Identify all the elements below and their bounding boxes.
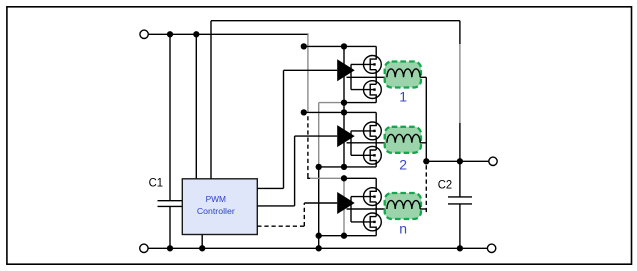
wire: phase 2 top gate lead [351,130,375,132]
node: C1 ground junction [167,245,173,251]
svg-text:2: 2 [399,157,407,173]
svg-text:C1: C1 [149,175,164,189]
wire: phase 2 source branch [319,166,377,168]
node: PWM vin junction [193,31,199,37]
wire: output line to terminal [426,160,489,162]
svg-text:1: 1 [399,89,407,105]
node: phase 2 source on middle bus [341,164,347,170]
wire: middle bus segment A [343,46,345,166]
wire: phase 2 bottom gate lead [351,154,375,156]
wire: PWM vin feed [195,34,197,179]
input terminal top (Vin+) [140,30,148,38]
inductor L1 highlight box [385,62,421,88]
node: phase 2 drain on middle bus [341,109,347,115]
wire: ground bus vertical upper (gray) [318,103,320,167]
wire: phase 1 source branch (gray + black) [319,102,344,104]
wire: phase 2 drain branch [304,111,376,113]
wire: middle bus segment B (gray) [343,178,345,235]
node: vin bus phase1 tap [301,43,307,49]
wire: top input rail [148,33,308,35]
inductor Ln highlight box [385,193,421,219]
wire: phase n switch node between FETs [375,202,377,217]
wire: feedback right vertical down to output node [459,21,461,44]
node: PWM ground junction [199,245,205,251]
output terminal top (Vout+) [489,157,497,165]
wire: bottom ground rail [148,247,487,249]
wire: feedback from output to PWM (left vertical) [210,21,212,179]
input terminal bottom (Vin-) [140,244,148,252]
wire: phase 1 switch node between FETs [375,70,377,85]
inductor L2 coil [387,134,420,142]
wire: phase 2 switch node to inductor [347,142,387,144]
capacitor C2 [448,161,472,248]
wire: phase n drain branch (gray + black) [310,177,344,179]
node: C1 top rail junction [167,31,173,37]
wire: vin bus dashed continuation [307,116,309,175]
driver U2 (phase 2) [337,125,355,147]
output terminal bottom (Vout-) [487,244,495,252]
wire: phase n source branch [319,235,377,237]
wire: phase n top gate lead [351,196,375,198]
inductor L1 coil [387,69,420,77]
node: phase n source on ground bus [316,233,322,239]
transistor Q3 high-side (phase 2) [364,112,382,139]
wire: phase n bottom gate lead [351,221,375,223]
wire: vin bus vertical (gray solid) [307,34,309,112]
transistor Q5 high-side (phase n) [364,178,382,205]
node: phase 2 source on ground bus [316,164,322,170]
wire: phase 1 top gate lead [351,63,375,65]
wire: phase outputs vertical [425,77,427,161]
capacitor C1 [158,34,183,248]
svg-text:n: n [399,221,407,237]
node: phase 1 drain on middle bus [341,43,347,49]
wire: inductor L1 output stub [420,76,426,78]
wire: phase n output dashed vertical [425,165,427,214]
wire: phase 1 bottom gate lead [351,89,375,91]
wire: phase n gate riser [350,197,352,222]
inductor Ln coil [387,201,420,209]
wire: phase 1 switch node to inductor [347,76,387,78]
svg-text:PWM: PWM [206,194,226,204]
wire: inductor Ln output stub [420,208,426,210]
transistor Q1 high-side (phase 1) [364,46,382,73]
svg-text:C2: C2 [438,178,453,192]
wire: PWM to driver 2 [257,136,337,206]
wire: phase 2 gate riser [350,131,352,155]
node: phase output join [423,158,429,164]
inductor L2 highlight box [385,127,421,153]
node: phase n drain on middle bus [341,175,347,181]
node: vin bus phase2 tap [301,109,307,115]
node: phase n source on middle bus [341,233,347,239]
wire: PWM to driver n (dashed) [257,203,337,226]
wire: PWM to driver 1 [257,70,337,188]
driver U3 (phase n) [337,192,355,214]
wire: inductor L2 output stub [420,142,426,144]
svg-text:Controller: Controller [197,206,235,216]
wire: phase 2 switch node between FETs [375,136,377,150]
pwm controller U1 [182,179,257,235]
node: ground bus to bottom rail [316,245,322,251]
transistor Q2 low-side (phase 1) [364,81,382,103]
driver U1 (phase 1) [337,59,355,81]
node: output C2/feedback junction [457,158,463,164]
wire: phase n switch node to inductor [347,208,387,210]
wire: vin bus dashed elbow to phase n [308,175,311,179]
wire: phase 1 gate riser [350,64,352,89]
node: phase 1 source on middle bus [341,99,347,105]
transistor Q6 low-side (phase n) [364,213,382,236]
wire: PWM ground stub [201,235,203,249]
transistor Q4 low-side (phase 2) [364,146,382,166]
wire: phase 1 drain branch [304,45,376,47]
wire: ground bus vertical lower [318,167,320,248]
wire: feedback top horizontal [211,20,460,22]
node: C2 ground junction [457,245,463,251]
